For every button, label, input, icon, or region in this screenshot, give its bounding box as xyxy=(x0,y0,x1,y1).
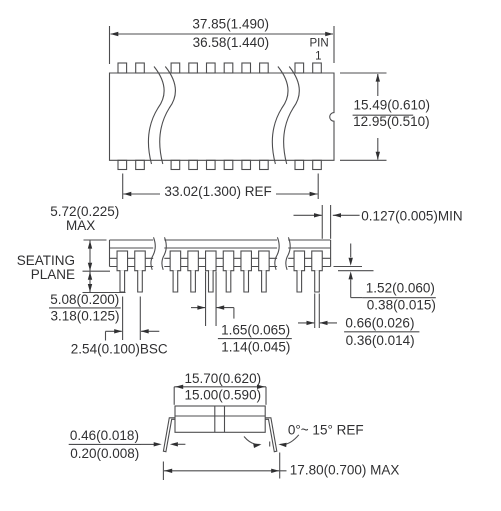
svg-text:0.38(0.015): 0.38(0.015) xyxy=(367,297,436,312)
svg-text:0.66(0.026): 0.66(0.026) xyxy=(345,316,414,331)
svg-text:15.00(0.590): 15.00(0.590) xyxy=(185,388,262,403)
svg-text:PLANE: PLANE xyxy=(31,267,75,282)
svg-text:2.54(0.100)BSC: 2.54(0.100)BSC xyxy=(71,342,168,357)
svg-text:5.08(0.200): 5.08(0.200) xyxy=(50,292,119,307)
svg-text:15.49(0.610): 15.49(0.610) xyxy=(354,98,431,113)
svg-text:0°~ 15° REF: 0°~ 15° REF xyxy=(288,423,364,438)
svg-text:SEATING: SEATING xyxy=(17,253,75,268)
svg-text:0.46(0.018): 0.46(0.018) xyxy=(70,428,139,443)
svg-text:17.80(0.700) MAX: 17.80(0.700) MAX xyxy=(290,463,400,478)
svg-text:12.95(0.510): 12.95(0.510) xyxy=(353,114,430,129)
svg-text:PIN: PIN xyxy=(310,38,329,50)
svg-text:0.36(0.014): 0.36(0.014) xyxy=(346,333,415,348)
svg-text:MAX: MAX xyxy=(66,218,95,233)
svg-text:1.14(0.045): 1.14(0.045) xyxy=(221,340,290,355)
svg-text:1.65(0.065): 1.65(0.065) xyxy=(221,323,290,338)
svg-text:15.70(0.620): 15.70(0.620) xyxy=(185,371,262,386)
svg-text:1: 1 xyxy=(315,50,321,62)
svg-text:1.52(0.060): 1.52(0.060) xyxy=(366,280,435,295)
svg-text:0.127(0.005)MIN: 0.127(0.005)MIN xyxy=(361,209,462,224)
svg-text:33.02(1.300) REF: 33.02(1.300) REF xyxy=(164,184,271,199)
svg-text:36.58(1.440): 36.58(1.440) xyxy=(193,35,270,50)
svg-text:3.18(0.125): 3.18(0.125) xyxy=(51,309,120,324)
svg-text:0.20(0.008): 0.20(0.008) xyxy=(70,446,139,461)
svg-text:37.85(1.490): 37.85(1.490) xyxy=(192,16,269,31)
svg-text:5.72(0.225): 5.72(0.225) xyxy=(50,204,119,219)
